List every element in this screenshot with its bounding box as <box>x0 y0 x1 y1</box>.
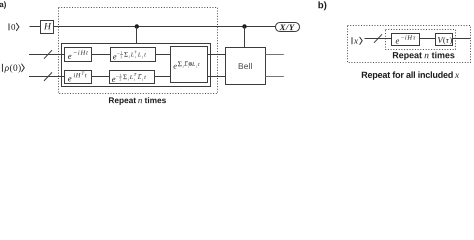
label repeat for all included x <box>362 71 459 79</box>
wire b segment 2 <box>420 38 436 40</box>
outer dotted box b <box>348 26 471 63</box>
gate H <box>41 21 54 34</box>
wire b segment 3 <box>453 38 471 40</box>
control wire 2 <box>244 27 246 48</box>
ket |0> <box>8 23 10 30</box>
wire register2 <box>29 76 65 78</box>
output wire 1 <box>266 54 284 56</box>
Bell measurement box <box>226 48 266 85</box>
wire b segment 1 <box>365 38 392 40</box>
control dot 2 <box>242 24 246 28</box>
control dot 1 <box>135 24 139 28</box>
wire ancilla right <box>54 26 276 28</box>
gate e^(iH^T t) <box>65 71 92 84</box>
gate e^(-1/2 sum Li^T Lbar_i t) <box>110 71 155 84</box>
dotted repeat box a <box>59 8 218 94</box>
wire ancilla left <box>30 26 41 28</box>
measurement X/Y <box>276 23 300 32</box>
gate e^-iHtau <box>392 34 420 46</box>
panel label b) <box>318 1 326 10</box>
ket |rho(0)> <box>1 64 3 72</box>
label repeat n times (a) <box>109 97 166 105</box>
gate e^-iHt <box>65 48 92 62</box>
control wire 1 <box>136 27 138 44</box>
controlled block box <box>62 44 211 87</box>
output wire 2 <box>266 76 284 78</box>
bus slash register2 <box>44 72 52 81</box>
ket |x> <box>351 37 353 44</box>
gate e^(sum Lbar x L t) <box>171 47 208 83</box>
bus slash b <box>374 34 382 43</box>
bus slash register1 <box>44 50 52 59</box>
gate V(tau) <box>436 34 453 46</box>
wire register1 <box>29 54 65 56</box>
panel label a) <box>0 1 6 8</box>
gate e^(-1/2 sum Li+Li t) <box>111 48 156 62</box>
inner dotted box b <box>386 30 456 50</box>
label repeat n times (b) <box>393 52 455 60</box>
